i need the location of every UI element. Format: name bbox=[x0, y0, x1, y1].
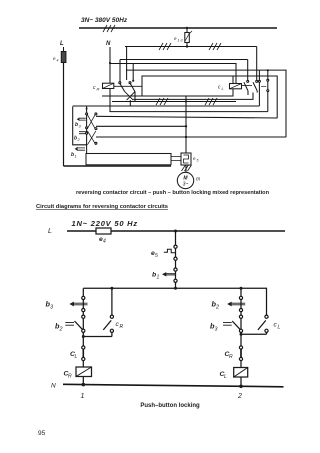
terminal b3 bottom bbox=[86, 127, 97, 130]
push-button b1 (stop) bbox=[152, 272, 176, 281]
hatch lower line left bbox=[156, 98, 168, 105]
contact cR pole 1 bbox=[119, 82, 125, 92]
interlock cross b2 bbox=[87, 131, 96, 145]
svg-text:L: L bbox=[75, 354, 78, 360]
junction motor cross bbox=[185, 136, 187, 138]
push-button b2 (top circuit) bbox=[74, 132, 86, 142]
terminal 2 bbox=[237, 393, 242, 400]
overload relay e5 (top) bbox=[181, 153, 199, 165]
wire join right bbox=[240, 333, 267, 336]
svg-text:1N~ 220V 50 Hz: 1N~ 220V 50 Hz bbox=[72, 219, 138, 228]
svg-text:L: L bbox=[224, 374, 227, 380]
terminal bbox=[239, 296, 242, 299]
coil cR bbox=[64, 367, 92, 380]
contact cL pole 2 bbox=[253, 80, 258, 90]
terminal bbox=[82, 309, 85, 312]
wire feed cL pole2 bbox=[256, 47, 258, 81]
wire supply bus bbox=[79, 27, 277, 29]
terminal bbox=[174, 257, 177, 260]
mechanical link cL bbox=[242, 84, 253, 86]
wire mid bus bbox=[83, 287, 267, 289]
svg-text:2: 2 bbox=[215, 305, 219, 311]
hatch motor lead bbox=[182, 165, 192, 172]
svg-text:4: 4 bbox=[103, 239, 106, 245]
wire line y64 bbox=[110, 64, 236, 84]
terminal bbox=[82, 346, 85, 349]
contactor coil cR bbox=[93, 83, 114, 91]
wire join left bbox=[82, 335, 112, 338]
heading bbox=[36, 204, 168, 210]
wire L line down bbox=[63, 63, 65, 167]
svg-text:R: R bbox=[68, 374, 72, 380]
wire cL bottoms bbox=[248, 91, 257, 95]
terminal b3 top bbox=[86, 113, 97, 115]
terminal bbox=[82, 315, 85, 318]
svg-text:Circuit diagrams for reversing: Circuit diagrams for reversing contactor… bbox=[36, 204, 168, 210]
terminal bbox=[239, 357, 242, 360]
wire line y70 bbox=[126, 70, 286, 137]
svg-text:4: 4 bbox=[57, 59, 59, 63]
svg-text:R: R bbox=[120, 324, 124, 330]
wire b2 out bbox=[96, 136, 286, 138]
svg-text:L: L bbox=[278, 325, 281, 331]
label 3N~ 380V 50Hz bbox=[81, 17, 128, 24]
junction left on N bbox=[82, 383, 86, 387]
contact cL aux 1 bbox=[258, 80, 260, 106]
wires box to overload bbox=[171, 157, 181, 161]
svg-text:1-3: 1-3 bbox=[178, 39, 183, 43]
svg-text:Push–button locking: Push–button locking bbox=[140, 403, 200, 409]
interlock cross b3 bbox=[87, 115, 95, 129]
svg-text:5: 5 bbox=[155, 253, 158, 259]
terminal bbox=[239, 309, 242, 312]
wire aux2 drop bbox=[267, 70, 269, 79]
svg-text:2: 2 bbox=[77, 137, 81, 142]
node N (bottom) bbox=[51, 383, 56, 390]
wire N bus bbox=[63, 384, 284, 387]
svg-text:3: 3 bbox=[79, 124, 82, 129]
svg-text:L: L bbox=[48, 228, 52, 235]
wire L bottom run bbox=[64, 165, 172, 167]
wire line y58 bbox=[120, 59, 248, 61]
svg-text:L: L bbox=[222, 86, 224, 91]
junction motor feed bbox=[185, 100, 187, 102]
terminal bbox=[174, 268, 177, 271]
contact cR pole 2 bbox=[129, 82, 135, 92]
hatch on line B left bbox=[159, 43, 171, 50]
wire lower hatch line bbox=[112, 101, 236, 103]
wire L drop bbox=[63, 47, 65, 52]
svg-text:5: 5 bbox=[197, 159, 199, 163]
wire staircase 4 / b3 out bbox=[96, 116, 277, 118]
svg-text:m: m bbox=[196, 177, 200, 183]
three-phase hatch on supply bus bbox=[103, 25, 115, 32]
junction right on N bbox=[239, 385, 243, 389]
contact cL interlock bbox=[70, 349, 83, 360]
svg-text:R: R bbox=[229, 354, 233, 360]
svg-text:1: 1 bbox=[81, 393, 85, 400]
svg-text:L: L bbox=[60, 41, 64, 47]
mechanical link cR bbox=[114, 85, 142, 87]
terminal bbox=[239, 315, 242, 318]
junction on N bbox=[109, 62, 111, 64]
svg-text:3: 3 bbox=[50, 305, 53, 311]
svg-text:N: N bbox=[106, 41, 111, 47]
button box left bbox=[73, 107, 87, 145]
label 1N~ 220V 50 Hz bbox=[72, 219, 138, 228]
svg-text:N: N bbox=[51, 383, 56, 390]
big control box bbox=[142, 76, 233, 96]
coil cL bbox=[220, 368, 248, 381]
wire left branch bbox=[82, 288, 84, 384]
wire feed cL pole1 bbox=[247, 60, 249, 81]
wire staircase 1 bbox=[133, 93, 253, 100]
junction mid bus bbox=[110, 287, 242, 290]
page number bbox=[38, 430, 46, 437]
wire aux link bbox=[261, 85, 266, 87]
wire N drop bbox=[109, 47, 111, 112]
push-button b3 NC bbox=[46, 300, 88, 311]
wire contact bottom 2 bbox=[134, 92, 136, 102]
terminal b2 bottom bbox=[86, 132, 97, 144]
wire button column bbox=[86, 107, 88, 154]
wire contact bottom 1 bbox=[129, 100, 131, 106]
terminal bbox=[82, 296, 85, 299]
contact cR hold bbox=[103, 288, 123, 336]
contact cR interlock bbox=[225, 349, 242, 360]
node L (control) bbox=[48, 228, 52, 235]
svg-text:1: 1 bbox=[75, 154, 77, 159]
svg-text:2: 2 bbox=[59, 327, 63, 333]
junction L drop bbox=[174, 230, 177, 233]
svg-text:R: R bbox=[97, 87, 100, 92]
push-button b1 (top circuit) bbox=[71, 147, 85, 159]
svg-text:3~: 3~ bbox=[183, 182, 189, 188]
wire staircase 3 bbox=[110, 111, 268, 113]
push-button b2 NO bbox=[55, 321, 83, 333]
caption top diagram bbox=[76, 190, 270, 196]
svg-text:95: 95 bbox=[38, 430, 46, 437]
terminal bbox=[174, 279, 177, 282]
terminal 1 bbox=[81, 393, 85, 400]
wire feed cR pole1 bbox=[126, 47, 128, 81]
wire line B bbox=[125, 46, 257, 48]
svg-text:3N~ 380V 50Hz: 3N~ 380V 50Hz bbox=[81, 17, 128, 24]
station box bbox=[86, 154, 171, 165]
push-button b3 NO bbox=[210, 321, 241, 333]
caption bottom diagram bbox=[140, 403, 200, 409]
terminal bbox=[82, 329, 85, 332]
interlock cross contacts bbox=[125, 92, 135, 101]
wire staircase 2 bbox=[73, 105, 260, 107]
terminal bbox=[82, 357, 85, 360]
wire motor feed bbox=[185, 96, 187, 153]
svg-text:2: 2 bbox=[237, 393, 242, 400]
contact cL pole 1 bbox=[244, 80, 249, 90]
junction button column bbox=[86, 108, 88, 110]
wire feed cR pole2 bbox=[132, 64, 134, 82]
svg-text:reversing contactor circuit –: reversing contactor circuit – push – but… bbox=[76, 190, 270, 196]
wire aux1 feed bbox=[258, 70, 260, 80]
fuse e4 (bottom) bbox=[96, 228, 111, 245]
node N bbox=[106, 41, 111, 47]
terminal bbox=[174, 245, 177, 248]
fuse e1-3 bbox=[174, 27, 192, 48]
fuse e4 control fuse bbox=[53, 52, 66, 63]
svg-text:3: 3 bbox=[215, 327, 218, 333]
wire main drop bbox=[175, 231, 177, 288]
contactor coil cL bbox=[218, 84, 242, 92]
wire right branch bbox=[240, 288, 242, 386]
wire coil return bbox=[102, 95, 142, 97]
motor M 3~ bbox=[177, 172, 200, 188]
junction upper right bbox=[267, 69, 269, 71]
contact cL aux 2 bbox=[267, 79, 269, 111]
wire button line bbox=[96, 125, 187, 127]
push-button b3 (top circuit) bbox=[75, 118, 86, 129]
overload contact e5 (bottom) bbox=[151, 249, 176, 259]
hatch lower line right bbox=[205, 98, 217, 105]
push-button b2 NC bbox=[212, 300, 246, 311]
hatch on line B right bbox=[209, 43, 221, 50]
terminal bbox=[239, 329, 242, 332]
svg-text:1: 1 bbox=[157, 275, 160, 281]
wire box top extension bbox=[233, 76, 277, 118]
node L bbox=[60, 41, 64, 47]
terminal bbox=[239, 346, 242, 349]
wire feed cR pole3 bbox=[119, 60, 121, 83]
wire L control line bbox=[67, 230, 285, 232]
contact cL hold bbox=[258, 288, 281, 334]
